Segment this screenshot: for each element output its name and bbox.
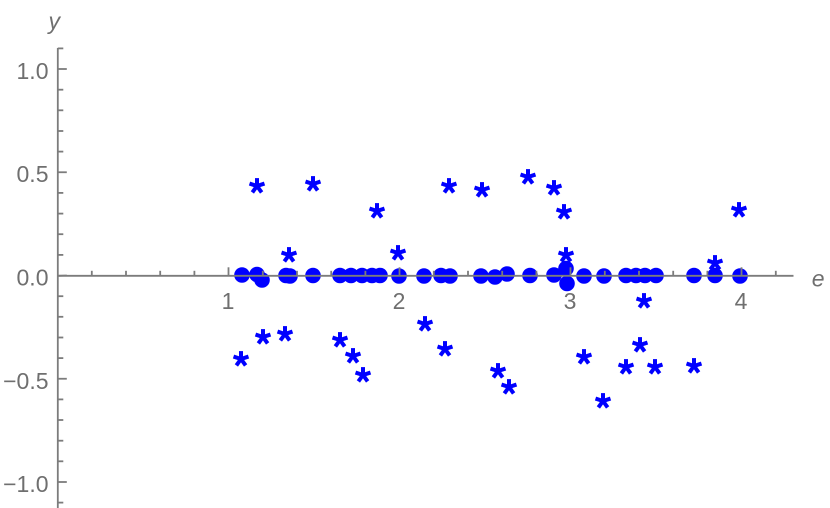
y tick labels bbox=[3, 58, 48, 497]
x minor ticks bbox=[92, 271, 776, 276]
x major ticks bbox=[229, 267, 742, 276]
svg-text:3: 3 bbox=[564, 288, 577, 314]
x tick labels bbox=[222, 288, 748, 314]
data disks on y=0 bbox=[234, 261, 748, 292]
svg-text:e: e bbox=[812, 266, 825, 292]
svg-text:−0.5: −0.5 bbox=[3, 368, 48, 394]
svg-text:−1.0: −1.0 bbox=[3, 471, 48, 497]
y minor ticks bbox=[58, 48, 64, 502]
svg-text:1.0: 1.0 bbox=[17, 58, 49, 84]
svg-text:0.5: 0.5 bbox=[17, 161, 49, 187]
svg-text:4: 4 bbox=[735, 288, 748, 314]
svg-text:2: 2 bbox=[393, 288, 406, 314]
svg-text:1: 1 bbox=[222, 288, 235, 314]
star markers bbox=[234, 169, 747, 407]
y major ticks bbox=[58, 69, 67, 482]
svg-text:y: y bbox=[47, 8, 62, 34]
svg-text:0.0: 0.0 bbox=[17, 265, 49, 291]
